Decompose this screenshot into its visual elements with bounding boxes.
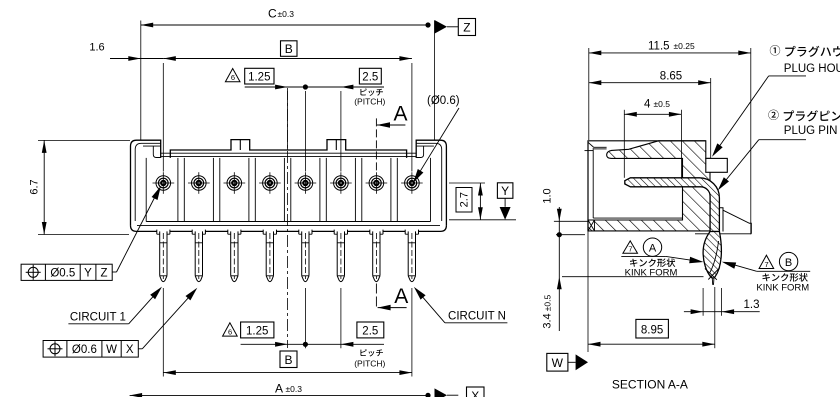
solder pin 3 bbox=[228, 230, 241, 282]
svg-text:W: W bbox=[106, 344, 117, 356]
svg-text:CIRCUIT N: CIRCUIT N bbox=[448, 310, 506, 322]
svg-text:±0.5: ±0.5 bbox=[543, 294, 553, 311]
solder pin 8 bbox=[405, 230, 418, 282]
svg-text:Z: Z bbox=[463, 21, 470, 35]
svg-text:B: B bbox=[785, 257, 792, 269]
solder pin 5 bbox=[299, 230, 312, 282]
svg-text:A: A bbox=[394, 285, 408, 308]
bottom wall end cut cross bbox=[588, 220, 595, 231]
svg-text:1.25: 1.25 bbox=[248, 72, 270, 84]
CIRCUIT 1 label bbox=[68, 287, 162, 324]
svg-text:KINK FORM: KINK FORM bbox=[756, 282, 809, 293]
dimension 8.65 bbox=[589, 70, 711, 158]
solder pin 6 bbox=[334, 230, 347, 282]
svg-text:11.5: 11.5 bbox=[648, 41, 670, 53]
dimension C +-0.3 (top) bbox=[141, 7, 431, 141]
right support bracket bbox=[719, 208, 751, 234]
svg-text:(PITCH): (PITCH) bbox=[354, 358, 385, 368]
svg-text:W: W bbox=[552, 356, 564, 370]
solder pin 2 bbox=[192, 230, 205, 282]
svg-text:SECTION A-A: SECTION A-A bbox=[612, 378, 688, 392]
svg-text:1.3: 1.3 bbox=[744, 299, 760, 311]
datum Z flag bbox=[435, 19, 476, 141]
svg-text:A: A bbox=[649, 243, 657, 255]
dimension 11.5 +-0.25 bbox=[589, 41, 751, 235]
svg-text:X: X bbox=[126, 344, 134, 356]
feature control frame pos O0.5 Y Z bbox=[21, 186, 161, 280]
kink form label A bbox=[621, 238, 703, 278]
dimension 1.3 bbox=[684, 288, 760, 316]
dimension 8.95 bbox=[588, 231, 715, 352]
plug pin (section) bbox=[625, 178, 720, 232]
svg-text:Y: Y bbox=[84, 268, 92, 280]
svg-text:Ø0.6: Ø0.6 bbox=[72, 344, 97, 356]
svg-text:±0.5: ±0.5 bbox=[654, 99, 671, 109]
svg-text:PLUG HOU: PLUG HOU bbox=[784, 63, 840, 75]
label (O0.6) with leader to pin circle 8 bbox=[413, 95, 460, 183]
pin circle 7 bbox=[366, 172, 388, 194]
housing right tab bbox=[706, 158, 728, 172]
svg-text:7: 7 bbox=[765, 260, 769, 269]
pin circle 1 bbox=[153, 172, 175, 194]
pin kink (olive) bbox=[703, 232, 721, 279]
dimension B (top) bbox=[163, 41, 412, 172]
svg-text:6: 6 bbox=[228, 327, 232, 336]
section arrow A (top) bbox=[376, 103, 407, 172]
dimension 1.25 / 2.5 pitch (top) bbox=[225, 68, 385, 171]
CIRCUIT N label bbox=[414, 287, 508, 323]
svg-text:2.5: 2.5 bbox=[362, 72, 378, 84]
pin circle 4 bbox=[259, 172, 281, 194]
dimension 2.7 (right side) bbox=[449, 183, 516, 220]
kink fold line bbox=[710, 241, 719, 273]
label 2 plug pin bbox=[718, 110, 840, 191]
svg-text:8.65: 8.65 bbox=[660, 70, 682, 82]
svg-text:A: A bbox=[275, 382, 283, 396]
svg-text:PLUG PIN: PLUG PIN bbox=[784, 125, 838, 137]
svg-text:B: B bbox=[284, 353, 292, 367]
svg-text:B: B bbox=[285, 42, 293, 56]
svg-text:X: X bbox=[471, 389, 479, 397]
svg-text:6.7: 6.7 bbox=[29, 179, 41, 194]
section housing outer profile bbox=[585, 141, 706, 231]
svg-text:8.95: 8.95 bbox=[641, 325, 663, 337]
svg-text:2.7: 2.7 bbox=[459, 192, 471, 207]
label 1 plug housing bbox=[712, 45, 840, 157]
svg-text:CIRCUIT 1: CIRCUIT 1 bbox=[70, 312, 126, 324]
pin circle 2 bbox=[188, 172, 210, 194]
svg-text:Ø0.5: Ø0.5 bbox=[50, 268, 75, 280]
svg-text:±0.25: ±0.25 bbox=[674, 41, 695, 51]
svg-text:±0.3: ±0.3 bbox=[286, 384, 303, 394]
solder pin 1 bbox=[157, 230, 170, 282]
svg-text:±0.3: ±0.3 bbox=[278, 9, 295, 19]
svg-text:1.25: 1.25 bbox=[246, 326, 268, 338]
seating boss line under housing bbox=[695, 233, 751, 235]
pin circle 8 bbox=[401, 172, 423, 194]
housing inner contour bbox=[135, 140, 442, 226]
svg-text:Z: Z bbox=[100, 268, 107, 280]
solder pin 4 bbox=[263, 230, 276, 282]
svg-text:1.6: 1.6 bbox=[89, 42, 104, 54]
dimension 1.25 / 2.5 pitch (bottom) bbox=[223, 288, 386, 368]
svg-text:6: 6 bbox=[231, 73, 235, 82]
dimension 4 +-0.5 bbox=[624, 99, 681, 179]
cell separator walls bbox=[178, 158, 397, 222]
dimensions 1.0 and 3.4 (left of section) bbox=[542, 188, 704, 331]
section arrow A (bottom) bbox=[376, 284, 408, 311]
datum X flag bbox=[435, 387, 485, 397]
housing body outline (front view) bbox=[131, 140, 447, 232]
dimension 6.7 (left) bbox=[29, 140, 131, 234]
svg-text:2.5: 2.5 bbox=[362, 326, 378, 338]
dimension 1.6 (top left) bbox=[89, 42, 175, 61]
solder pin 7 bbox=[370, 230, 383, 282]
feature control frame pos O0.6 W X bbox=[43, 288, 197, 357]
svg-text:C: C bbox=[268, 7, 277, 21]
svg-text:A: A bbox=[393, 103, 407, 126]
svg-text:(PITCH): (PITCH) bbox=[354, 97, 385, 107]
dimension B (bottom) bbox=[163, 288, 412, 377]
pin circle 5 bbox=[295, 172, 317, 194]
svg-text:3.4: 3.4 bbox=[542, 313, 554, 328]
kink form label B bbox=[722, 252, 810, 293]
pin circle 6 bbox=[330, 172, 352, 194]
section housing cut region (hatched) bbox=[588, 141, 710, 231]
svg-text:Y: Y bbox=[501, 184, 509, 198]
pin circle 3 bbox=[224, 172, 246, 194]
svg-text:7: 7 bbox=[628, 245, 632, 254]
datum W flag bbox=[547, 353, 588, 371]
svg-text:1.0: 1.0 bbox=[542, 188, 554, 203]
svg-text:(Ø0.6): (Ø0.6) bbox=[427, 95, 460, 107]
housing centerline bbox=[287, 88, 289, 348]
datum Y flag bbox=[497, 183, 513, 220]
dimension A +-0.3 (bottom) bbox=[130, 382, 431, 397]
svg-text:4: 4 bbox=[644, 99, 651, 111]
